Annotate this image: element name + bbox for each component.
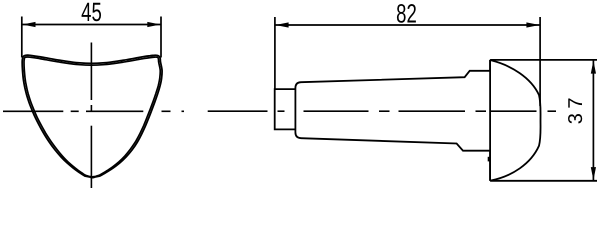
- dimension 82: right arrowhead: [526, 22, 539, 27]
- side view: horizontal centerline (dash-dot): [208, 110, 268, 112]
- side view: lens dome curve: [491, 60, 541, 180]
- dimension 82: left extension line: [274, 17, 276, 89]
- svg-text:82: 82: [396, 0, 417, 28]
- dimension 45: right extension line: [160, 17, 162, 58]
- side view: body outline: [295, 60, 490, 181]
- dimension 82: right extension line: [539, 17, 541, 106]
- dimension 37: top arrowhead: [591, 60, 596, 73]
- front view: inner lens contour: [24, 57, 160, 177]
- side view: housing bottom edge: [490, 180, 597, 182]
- dimension 45: dimension line: [22, 24, 161, 26]
- dimension 45: left extension line: [21, 17, 23, 58]
- side view: flange clip tab: [488, 157, 491, 162]
- dimension 82: dimension line: [275, 24, 540, 26]
- side view: housing top edge: [490, 59, 597, 61]
- svg-text:37: 37: [565, 93, 587, 124]
- side view: lens flange back edge: [489, 60, 491, 181]
- side view: connector stub: [275, 89, 296, 129]
- dimension 37: dimension line: [592, 60, 594, 181]
- dimension 82: left arrowhead: [275, 22, 288, 27]
- front view: vertical centerline (dash-dot): [90, 43, 92, 101]
- front view: outer contour (shield shape): [22, 55, 162, 177]
- dimension 45: right arrowhead: [147, 22, 160, 27]
- svg-text:45: 45: [81, 0, 102, 27]
- front view: horizontal centerline (dash-dot): [3, 110, 63, 112]
- dimension 45: left arrowhead: [22, 22, 35, 27]
- dimension 37: bottom arrowhead: [591, 167, 596, 180]
